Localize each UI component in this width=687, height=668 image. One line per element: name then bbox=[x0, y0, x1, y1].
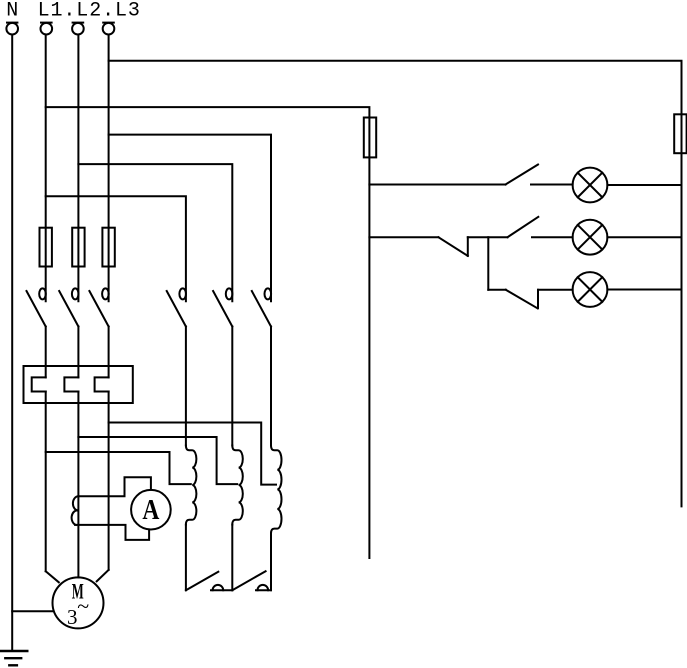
autotransformer coil 3 bbox=[271, 446, 282, 534]
wire L3 below relay bbox=[108, 392, 110, 570]
wire bus L2 to pole 5 bbox=[78, 164, 232, 301]
wire bus L3 to right edge bbox=[109, 61, 682, 507]
wire L1 below switch bbox=[45, 327, 47, 378]
ammeter bottom wire bbox=[75, 525, 149, 540]
fuse FU1 bbox=[40, 228, 52, 267]
star switch blade 1 bbox=[186, 572, 218, 590]
wire HL1 to bus bbox=[607, 184, 681, 186]
terminal L2 bbox=[72, 23, 84, 35]
thermal relay FR box bbox=[24, 366, 133, 403]
motor M1 bbox=[53, 577, 104, 628]
contactor KM pole 3 bbox=[252, 288, 271, 326]
wire bus L3 to pole 6 bbox=[109, 135, 271, 302]
terminal N bbox=[6, 23, 18, 35]
switch QS pole 2 bbox=[59, 288, 78, 326]
motor feed left diagonal bbox=[46, 571, 59, 582]
star switch wire 2 bbox=[256, 589, 271, 591]
fuse FU2 bbox=[72, 228, 84, 267]
wire N to motor bbox=[12, 610, 52, 612]
switch QS pole 1 bbox=[27, 288, 46, 326]
thermal relay FR heater 3 bbox=[95, 377, 109, 391]
wire L2 below switch bbox=[77, 327, 79, 378]
star switch contact 2 bbox=[258, 585, 269, 590]
autotransformer coil 1 bbox=[186, 446, 197, 525]
switch QS pole 3 bbox=[89, 288, 108, 326]
lamp HL3 bbox=[573, 272, 608, 307]
terminal L1 bbox=[41, 23, 53, 35]
thermal relay FR heater 2 bbox=[64, 377, 78, 391]
lamp switch SA2 bbox=[369, 217, 572, 256]
wire L2 vertical upper bbox=[77, 35, 79, 302]
star switch wire 1 bbox=[211, 589, 232, 591]
terminal L3 bbox=[103, 23, 115, 35]
wire bus L1 to pole 4 bbox=[46, 196, 186, 301]
svg-text:~: ~ bbox=[77, 594, 89, 619]
lamp switch SA3 bbox=[488, 290, 572, 309]
coil 2 lower wire bbox=[231, 525, 233, 591]
wire tap U to coil 1 bbox=[46, 452, 191, 484]
fuse FU3 bbox=[102, 228, 114, 267]
contactor pole 4 lower wire bbox=[185, 327, 187, 446]
lamp HL1 bbox=[573, 168, 608, 203]
fuse FU4 bbox=[364, 118, 376, 158]
svg-text:A: A bbox=[142, 495, 160, 526]
star switch blade 2 bbox=[232, 571, 265, 590]
lamp HL2 bbox=[573, 220, 608, 255]
wire L1 vertical upper bbox=[45, 35, 47, 302]
autotransformer coil 2 bbox=[232, 446, 243, 525]
svg-text:3: 3 bbox=[67, 605, 78, 629]
wire HL3 to bus bbox=[607, 289, 681, 291]
wire L1 below relay bbox=[45, 392, 47, 572]
wire bus L1 to control fuse bbox=[46, 107, 370, 558]
wire tap W to coil 3 bbox=[109, 423, 276, 485]
wire L2 below relay bbox=[77, 392, 79, 578]
contactor pole 5 lower wire bbox=[231, 327, 233, 446]
ground bbox=[1, 651, 27, 665]
wire tap V to coil 2 bbox=[78, 437, 237, 484]
motor feed right diagonal bbox=[97, 570, 109, 581]
fuse FU5 bbox=[674, 114, 686, 153]
wire L3 vertical upper bbox=[108, 35, 110, 302]
switch linkage bbox=[487, 237, 489, 290]
ammeter top wire bbox=[78, 477, 150, 496]
lamp switch SA1 bbox=[369, 165, 572, 185]
current transformer secondary bbox=[72, 496, 79, 525]
star switch contact 1 bbox=[213, 585, 224, 590]
thermal relay FR heater 1 bbox=[32, 377, 46, 391]
contactor KM pole 2 bbox=[213, 288, 232, 326]
svg-text:N: N bbox=[6, 0, 18, 23]
contactor KM pole 1 bbox=[167, 288, 186, 326]
wire L3 below switch bbox=[108, 327, 110, 378]
wire N vertical bbox=[11, 35, 13, 652]
coil 3 lower wire bbox=[270, 533, 272, 590]
contactor pole 6 lower wire bbox=[270, 327, 272, 446]
ammeter PA bbox=[131, 490, 171, 530]
svg-text:L1.L2.L3: L1.L2.L3 bbox=[38, 0, 141, 23]
coil 1 lower wire bbox=[185, 525, 187, 591]
wire HL2 to bus bbox=[607, 236, 681, 238]
